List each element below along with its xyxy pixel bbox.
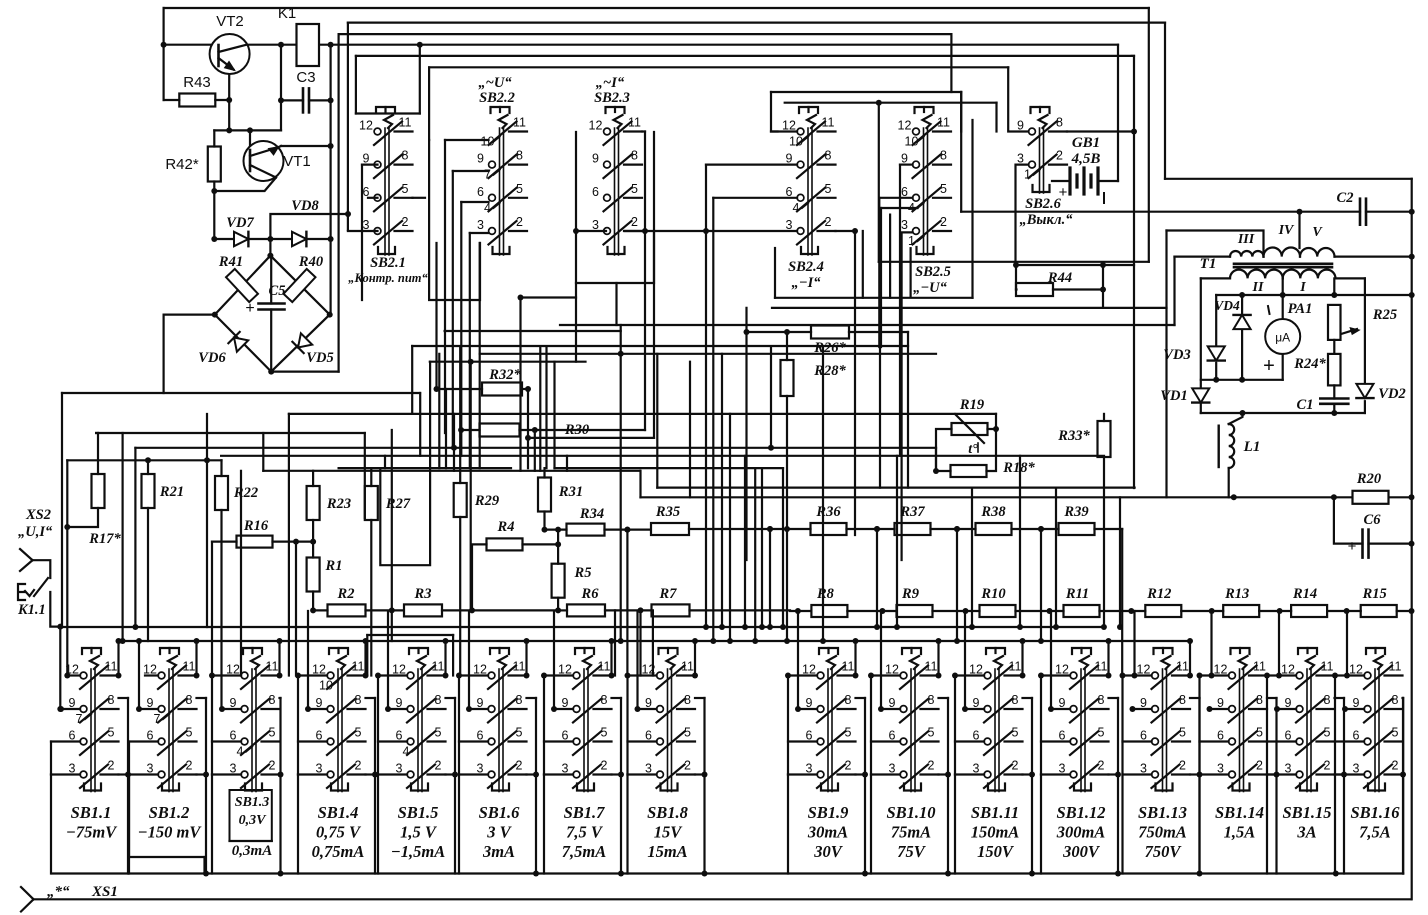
svg-text:R28*: R28*	[813, 363, 846, 379]
bridge edges	[215, 256, 330, 372]
wire y460 row	[67, 459, 221, 461]
wire line y487	[657, 487, 1134, 489]
svg-text:„~U“: „~U“	[478, 75, 512, 91]
svg-text:PA1: PA1	[1288, 301, 1313, 317]
XS1 bus	[21, 887, 34, 899]
svg-text:R12: R12	[1146, 586, 1171, 602]
wire vertical x288.9	[288, 414, 290, 676]
svg-text:750V: 750V	[1145, 842, 1183, 861]
wires around SB1.15	[1267, 674, 1296, 676]
svg-text:5: 5	[108, 726, 115, 740]
svg-text:R16: R16	[243, 518, 269, 534]
capacitor C3	[281, 99, 303, 101]
SB2.4 SB2.5 label boxes	[775, 297, 973, 299]
svg-text:8: 8	[402, 149, 409, 163]
svg-text:„Выкл.“: „Выкл.“	[1020, 212, 1074, 228]
switch SB1.2	[160, 648, 179, 654]
svg-text:R27: R27	[385, 496, 411, 512]
svg-text:SB1.16: SB1.16	[1350, 803, 1400, 822]
svg-text:SB1.12: SB1.12	[1056, 803, 1105, 822]
wire vertical x528	[527, 389, 529, 468]
svg-text:8: 8	[1056, 116, 1063, 130]
wire y297 from SB2.2	[521, 296, 577, 298]
meter PA1	[1282, 295, 1284, 320]
wire H6	[429, 66, 1008, 68]
svg-text:5: 5	[631, 182, 638, 196]
svg-text:R13: R13	[1224, 586, 1249, 602]
resistor R30	[480, 424, 520, 437]
svg-text:5: 5	[684, 726, 691, 740]
svg-text:R23: R23	[326, 496, 351, 512]
svg-text:8: 8	[516, 149, 523, 163]
switch SB1.5	[409, 648, 428, 654]
svg-text:8: 8	[435, 693, 442, 707]
svg-text:R9: R9	[901, 586, 919, 602]
svg-text:2: 2	[108, 759, 115, 773]
wire top right corner verticals	[1148, 8, 1150, 262]
svg-text:K1.1: K1.1	[17, 602, 46, 618]
switch SB1.4	[329, 648, 348, 654]
svg-text:R11: R11	[1065, 586, 1089, 602]
svg-text:R25: R25	[1372, 307, 1397, 323]
wire vertical x755.2	[754, 468, 756, 641]
wire SB1.2 box bottom	[129, 856, 205, 858]
svg-text:6: 6	[477, 185, 484, 199]
svg-text:4: 4	[237, 745, 244, 759]
switch SB1.15	[1298, 648, 1317, 654]
resistor R28*	[781, 360, 794, 396]
svg-text:R38: R38	[980, 504, 1006, 520]
svg-text:μA: μA	[1275, 331, 1290, 345]
resistor R10	[980, 605, 1016, 617]
svg-text:0,75mA: 0,75mA	[312, 842, 365, 861]
resistor R23	[307, 486, 320, 520]
svg-text:SB1.5: SB1.5	[398, 803, 439, 822]
resistor R29	[454, 483, 467, 517]
wire y331	[445, 330, 621, 332]
svg-text:R10: R10	[980, 586, 1005, 602]
SB2.3 box	[576, 231, 654, 283]
svg-text:C3: C3	[296, 69, 315, 86]
wire battery feed vertical	[1117, 45, 1119, 181]
svg-text:R1: R1	[325, 558, 343, 574]
svg-text:5: 5	[601, 726, 608, 740]
svg-text:+: +	[1059, 184, 1068, 201]
wire meter bottom inner rail y379	[1201, 379, 1283, 381]
wire top outer loop H1	[164, 7, 1149, 9]
svg-text:L1: L1	[1243, 439, 1261, 455]
svg-text:VD1: VD1	[1160, 388, 1187, 404]
svg-text:R22: R22	[233, 485, 258, 501]
svg-text:5: 5	[516, 182, 523, 196]
resistor R13	[1223, 605, 1259, 617]
capacitor C2 line y211	[961, 211, 1360, 213]
svg-text:2: 2	[269, 759, 276, 773]
wires around SB1.9	[788, 674, 817, 676]
svg-text:8: 8	[928, 693, 935, 707]
svg-text:R33*: R33*	[1057, 428, 1090, 444]
wires around SB1.12	[1041, 674, 1070, 676]
switch SB1.9	[819, 648, 838, 654]
wire vertical x880	[879, 347, 881, 488]
svg-text:R42*: R42*	[165, 156, 199, 173]
svg-text:2: 2	[845, 759, 852, 773]
svg-text:+: +	[1263, 355, 1275, 377]
svg-text:C5: C5	[269, 283, 286, 299]
resistor R35	[651, 523, 689, 535]
wire y470	[263, 470, 640, 472]
wires around SB1.6	[459, 674, 488, 676]
svg-text:SB2.2: SB2.2	[479, 90, 515, 106]
transistor VT1	[249, 130, 251, 151]
svg-text:SB1.7: SB1.7	[564, 803, 606, 822]
wire y447	[135, 447, 936, 449]
svg-text:150mA: 150mA	[971, 823, 1020, 842]
svg-text:2: 2	[1392, 759, 1399, 773]
wire vertical x439.3	[438, 354, 440, 468]
svg-text:5: 5	[845, 726, 852, 740]
node bridge top	[269, 239, 271, 256]
svg-text:SB1.4: SB1.4	[318, 803, 359, 822]
capacitor C6	[1334, 497, 1363, 543]
svg-text:R37: R37	[899, 504, 925, 520]
wire x654 to R30 lower row	[528, 437, 654, 439]
svg-text:SB2.3: SB2.3	[594, 90, 630, 106]
svg-text:R3: R3	[414, 586, 432, 602]
wires around SB1.13	[1123, 674, 1152, 676]
resistor R17*	[92, 474, 105, 508]
wire vertical x657.3	[656, 354, 658, 488]
resistor R40	[284, 269, 316, 302]
resistor R20	[1353, 491, 1389, 504]
svg-text:„Контр. пит“: „Контр. пит“	[348, 271, 428, 285]
svg-text:2: 2	[435, 759, 442, 773]
switch SB2.3	[606, 107, 625, 113]
svg-text:R29: R29	[474, 493, 499, 509]
wire R36-R39 row	[755, 528, 811, 530]
svg-text:4,5В: 4,5В	[1071, 151, 1101, 167]
switch SB2.4	[799, 107, 818, 113]
wires around SB1.14	[1200, 674, 1229, 676]
wire y346	[412, 345, 908, 347]
wire vertical x972	[971, 488, 973, 627]
wire base line y130	[214, 129, 281, 131]
svg-text:R36: R36	[815, 504, 841, 520]
resistor R32*	[482, 383, 522, 396]
svg-text:2: 2	[186, 759, 193, 773]
wire vertical x470.7	[470, 362, 472, 611]
switch SB1.6	[490, 648, 509, 654]
svg-text:2: 2	[516, 215, 523, 229]
resistor R26*	[811, 326, 849, 339]
wire bridge bottom to right	[271, 371, 338, 373]
svg-text:1,5 V: 1,5 V	[400, 823, 438, 842]
wire R8-R15 row	[790, 610, 811, 612]
svg-text:2: 2	[1098, 759, 1105, 773]
wire vertical x241	[240, 471, 242, 676]
resistor R43	[179, 94, 215, 107]
wire long line y497	[641, 496, 1412, 498]
svg-text:5: 5	[1392, 726, 1399, 740]
resistor R24*	[1333, 340, 1335, 354]
wire vertical x1120	[1119, 497, 1121, 627]
wire vertical H5 left end down to SB2.1 box	[355, 56, 357, 114]
svg-text:R2: R2	[337, 586, 355, 602]
svg-text:12: 12	[589, 119, 603, 133]
svg-text:9: 9	[477, 152, 484, 166]
svg-text:SB2.5: SB2.5	[915, 264, 951, 280]
svg-text:−75mV: −75mV	[66, 823, 118, 842]
transformer T1 primary windings III IV V	[1230, 251, 1264, 257]
svg-text:8: 8	[1098, 693, 1105, 707]
SB1.3 value box	[230, 790, 272, 841]
SB2.4 pin wires	[771, 130, 797, 132]
wire vertical x783	[782, 468, 784, 627]
svg-text:R43: R43	[183, 74, 211, 91]
svg-text:VD2: VD2	[1378, 386, 1405, 402]
diode VD6 on bridge edge	[228, 332, 248, 352]
relay K1	[297, 24, 320, 66]
resistor R36	[811, 523, 847, 535]
svg-text:R19: R19	[959, 397, 984, 413]
wire y393	[62, 392, 420, 394]
svg-text:6: 6	[592, 185, 599, 199]
svg-text:8: 8	[684, 693, 691, 707]
svg-text:9: 9	[592, 152, 599, 166]
resistor R1	[307, 558, 320, 592]
svg-text:2: 2	[1179, 759, 1186, 773]
svg-text:VD4: VD4	[1214, 298, 1240, 313]
diode VD8	[292, 232, 306, 246]
wire x1299 center tap to winding	[1298, 212, 1300, 248]
svg-text:750mA: 750mA	[1138, 823, 1187, 842]
wire SB2.1 pin3 lead	[348, 230, 378, 232]
wire bus y641	[119, 640, 1191, 642]
resistor R19 thermistor	[952, 423, 988, 435]
svg-text:15mA: 15mA	[647, 842, 687, 861]
svg-text:„*“: „*“	[47, 884, 70, 900]
wire vertical H6 left end down	[428, 67, 430, 140]
wire vertical x745	[744, 456, 746, 627]
svg-text:„−I“: „−I“	[792, 275, 822, 291]
wire vertical x460.2	[459, 347, 461, 456]
svg-text:7: 7	[484, 168, 491, 182]
wire y413	[289, 413, 996, 415]
wire H2	[348, 22, 1165, 24]
SB2.1 pin drops	[362, 164, 378, 166]
svg-text:II: II	[1252, 280, 1264, 295]
svg-text:SB2.1: SB2.1	[370, 255, 406, 271]
wire vertical x770	[769, 529, 771, 627]
svg-text:VD7: VD7	[226, 215, 254, 231]
switch SB1.11	[986, 648, 1005, 654]
svg-text:T1: T1	[1200, 256, 1217, 272]
svg-text:5: 5	[516, 726, 523, 740]
svg-text:2: 2	[355, 759, 362, 773]
wire vertical x730	[729, 414, 731, 641]
svg-text:R41: R41	[218, 254, 243, 270]
svg-text:SB1.8: SB1.8	[647, 803, 688, 822]
svg-text:VT1: VT1	[283, 153, 311, 170]
svg-text:5: 5	[1256, 726, 1263, 740]
svg-text:SB1.10: SB1.10	[886, 803, 935, 822]
wires R19/R18 loop	[936, 429, 952, 471]
svg-text:5: 5	[1179, 726, 1186, 740]
resistor R8	[811, 605, 847, 617]
resistor R3	[404, 604, 442, 616]
svg-text:VD3: VD3	[1163, 347, 1190, 363]
svg-text:2: 2	[1324, 759, 1331, 773]
resistor R37	[895, 523, 931, 535]
resistor R14	[1291, 605, 1327, 617]
diode VD3	[1215, 295, 1217, 346]
svg-text:R32*: R32*	[488, 367, 521, 383]
svg-text:R8: R8	[816, 586, 835, 602]
wire meter top rail y295	[1216, 294, 1412, 296]
wire vertical x823	[822, 347, 824, 641]
wire vertical x957	[956, 529, 958, 641]
svg-text:R15: R15	[1362, 586, 1387, 602]
SB2.3 bottom drop	[615, 283, 617, 325]
wire SB2.6 pin9 lead up	[1008, 67, 1028, 131]
svg-text:IV: IV	[1278, 223, 1295, 238]
svg-text:K1: K1	[278, 5, 296, 22]
svg-text:2: 2	[1256, 759, 1263, 773]
svg-text:7,5mA: 7,5mA	[562, 842, 606, 861]
diode VD1	[1192, 388, 1209, 402]
svg-text:−150 mV: −150 mV	[138, 823, 203, 842]
svg-text:+: +	[1348, 538, 1357, 555]
wire vertical x1134	[1132, 55, 1134, 57]
wire vertical x615	[614, 610, 616, 675]
wire SB2.6 pin3 lead / box	[1016, 165, 1135, 265]
SB2 area connection wires	[444, 140, 446, 433]
svg-text:R17*: R17*	[88, 531, 121, 547]
meter box outline	[1200, 278, 1202, 389]
wire winding III left feed	[1173, 257, 1175, 325]
svg-text:3: 3	[477, 218, 484, 232]
svg-text:4: 4	[403, 745, 410, 759]
wires around SB1.8	[628, 674, 657, 676]
svg-text:R18*: R18*	[1002, 460, 1035, 476]
SB1.4 box top	[367, 634, 453, 636]
svg-text:8: 8	[1392, 693, 1399, 707]
svg-text:15V: 15V	[654, 823, 684, 842]
svg-text:1: 1	[1024, 168, 1031, 182]
svg-text:SB1.9: SB1.9	[808, 803, 849, 822]
wire vertical x364.8	[364, 433, 366, 518]
svg-text:I: I	[1299, 280, 1306, 295]
svg-text:R7: R7	[659, 586, 678, 602]
svg-text:0,3mA: 0,3mA	[232, 843, 272, 859]
wire vertical x330 (C3 right / bridge right)	[330, 45, 332, 315]
wire vertical x1020	[1019, 456, 1021, 627]
resistor R11	[1064, 605, 1100, 617]
svg-text:7,5A: 7,5A	[1359, 823, 1391, 842]
svg-text:3 V: 3 V	[486, 823, 512, 842]
wire vertical x446	[445, 389, 447, 468]
wire vertical x520.5	[519, 298, 521, 471]
svg-text:GB1: GB1	[1072, 135, 1100, 151]
svg-text:2: 2	[402, 215, 409, 229]
wire y361	[430, 361, 586, 363]
svg-text:2: 2	[516, 759, 523, 773]
svg-text:12: 12	[359, 119, 373, 133]
wire y325 long	[560, 324, 1175, 326]
wire H5	[356, 55, 1132, 57]
switch SB2.1	[376, 107, 395, 113]
switch SB1.8	[659, 648, 678, 654]
resistor R4	[487, 538, 523, 550]
svg-text:+: +	[245, 300, 254, 317]
wire H3	[339, 33, 952, 35]
svg-text:8: 8	[601, 693, 608, 707]
svg-text:SB1.13: SB1.13	[1138, 803, 1187, 822]
svg-text:7: 7	[76, 712, 83, 726]
wire vertical H3 left end down to bridge bottom	[338, 34, 340, 372]
svg-text:0,75 V: 0,75 V	[316, 823, 362, 842]
switch SB2.5	[915, 107, 934, 113]
svg-text:5: 5	[1324, 726, 1331, 740]
svg-text:SB1.15: SB1.15	[1282, 803, 1331, 822]
svg-text:7,5 V: 7,5 V	[566, 823, 604, 842]
svg-text:4: 4	[793, 201, 800, 215]
switch SB1.13	[1154, 648, 1173, 654]
svg-text:5: 5	[435, 726, 442, 740]
resistor R22	[215, 476, 228, 510]
wires around SB1.1	[67, 674, 80, 676]
wire SB2.3 stub11 drop to R30 row	[642, 130, 645, 132]
svg-text:2: 2	[631, 215, 638, 229]
wire y338	[411, 346, 413, 414]
wire vertical x652.9	[652, 610, 654, 675]
resistor R42*	[208, 147, 221, 182]
wire bridge left corner to left	[164, 314, 215, 316]
wire vertical x385	[384, 456, 386, 468]
svg-text:8: 8	[845, 693, 852, 707]
resistor R41	[226, 269, 258, 302]
wire y455	[221, 455, 1104, 457]
svg-text:2: 2	[601, 759, 608, 773]
svg-text:R40: R40	[298, 254, 323, 270]
svg-text:SB1.1: SB1.1	[71, 803, 112, 822]
svg-text:„−U“: „−U“	[913, 280, 948, 296]
wire y433	[96, 432, 365, 434]
svg-text:R24*: R24*	[1293, 356, 1326, 372]
transistor VT2	[228, 74, 230, 130]
wire SB2.1 box top	[356, 112, 420, 114]
wire vertical H2 left end down	[347, 23, 349, 230]
svg-text:2: 2	[684, 759, 691, 773]
wire vertical x627.4	[626, 530, 628, 676]
svg-text:SB1.11: SB1.11	[971, 803, 1019, 822]
svg-text:8: 8	[1012, 693, 1019, 707]
svg-text:2: 2	[825, 215, 832, 229]
wire SB2.3 pin2 row to SB2.4 pin3	[625, 230, 797, 232]
wire VD junction up and right y214	[270, 214, 348, 239]
svg-text:SB1.2: SB1.2	[149, 803, 190, 822]
wire vertical x1056	[1055, 488, 1057, 627]
wire zigzag x380-430	[380, 362, 430, 566]
svg-text:3mA: 3mA	[482, 842, 515, 861]
resistor R34	[567, 524, 605, 536]
svg-text:8: 8	[355, 693, 362, 707]
svg-text:VD8: VD8	[291, 198, 319, 214]
wires around SB1.10	[871, 674, 900, 676]
svg-text:SB1.6: SB1.6	[479, 803, 521, 822]
wire y261 left from x1148	[879, 261, 1149, 263]
svg-text:7: 7	[154, 712, 161, 726]
